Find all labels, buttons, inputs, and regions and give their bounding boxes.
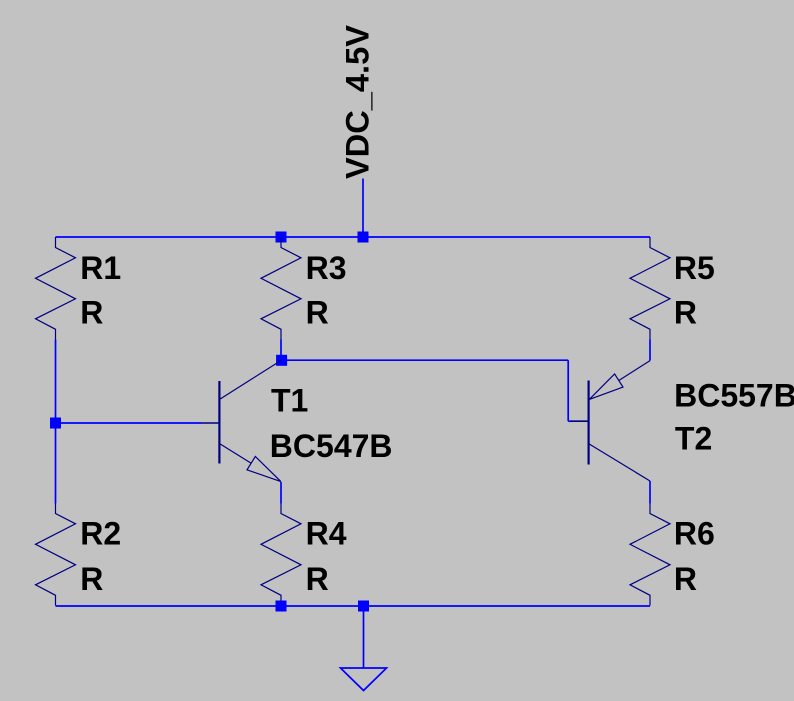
node junction R3 top	[276, 232, 287, 243]
wire R5 bottom to T2 emitter	[649, 340, 651, 361]
wire R1 bottom to base node	[55, 340, 57, 424]
wire T1 emitter to R4	[280, 482, 282, 504]
resistor R6	[630, 504, 670, 606]
ground symbol	[341, 668, 387, 691]
wire top power rail	[56, 236, 651, 238]
svg-text:R: R	[80, 295, 103, 331]
svg-text:R4: R4	[306, 516, 347, 552]
wire base node to T1 base	[56, 422, 202, 424]
svg-text:R: R	[674, 295, 697, 331]
resistor R4	[261, 504, 301, 606]
wire VDC supply drop	[362, 179, 364, 238]
resistor R5	[630, 237, 670, 340]
svg-text:R6: R6	[674, 516, 715, 552]
resistor R3	[261, 237, 301, 340]
svg-text:T1: T1	[271, 383, 308, 419]
node junction ground tap	[358, 601, 369, 612]
wire base node to R2	[55, 423, 57, 504]
svg-text:R: R	[306, 561, 329, 597]
wire T2 base vertical	[567, 360, 569, 421]
wire T2 collector to R6	[649, 481, 651, 504]
svg-text:T2: T2	[675, 421, 712, 457]
svg-text:BC557B: BC557B	[674, 377, 794, 413]
resistor R1	[36, 237, 76, 340]
wire bottom rail	[56, 605, 651, 607]
svg-text:R3: R3	[306, 250, 347, 286]
transistor T2	[571, 361, 650, 481]
svg-text:R1: R1	[80, 250, 121, 286]
node junction T1 collector	[276, 355, 287, 366]
svg-text:R: R	[80, 561, 103, 597]
wire ground drop	[363, 606, 365, 668]
svg-text:R5: R5	[674, 250, 715, 286]
wire T2 base stub	[568, 420, 572, 422]
svg-text:R: R	[306, 295, 329, 331]
svg-text:VDC_4.5V: VDC_4.5V	[338, 25, 375, 179]
resistor R2	[36, 504, 76, 606]
svg-text:BC547B: BC547B	[270, 428, 393, 464]
node junction R4 bottom	[276, 601, 287, 612]
transistor T1	[202, 360, 282, 481]
svg-text:R: R	[674, 561, 697, 597]
wire collector node to T2 base (horizontal)	[281, 359, 568, 361]
node junction base divider	[50, 418, 61, 429]
svg-text:R2: R2	[80, 516, 121, 552]
wire R3 bottom to collector node	[280, 340, 282, 361]
node junction VDC tap	[358, 232, 369, 243]
